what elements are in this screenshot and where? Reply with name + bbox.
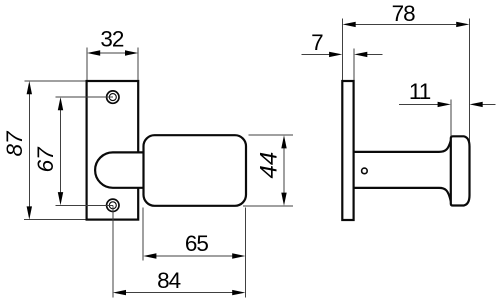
svg-text:87: 87	[2, 130, 27, 157]
svg-text:44: 44	[256, 152, 283, 179]
svg-text:65: 65	[185, 231, 209, 256]
svg-text:78: 78	[392, 1, 416, 26]
svg-text:32: 32	[100, 27, 124, 52]
svg-text:84: 84	[157, 268, 181, 293]
svg-text:7: 7	[311, 30, 323, 55]
svg-text:11: 11	[409, 79, 431, 104]
svg-text:67: 67	[33, 146, 58, 173]
